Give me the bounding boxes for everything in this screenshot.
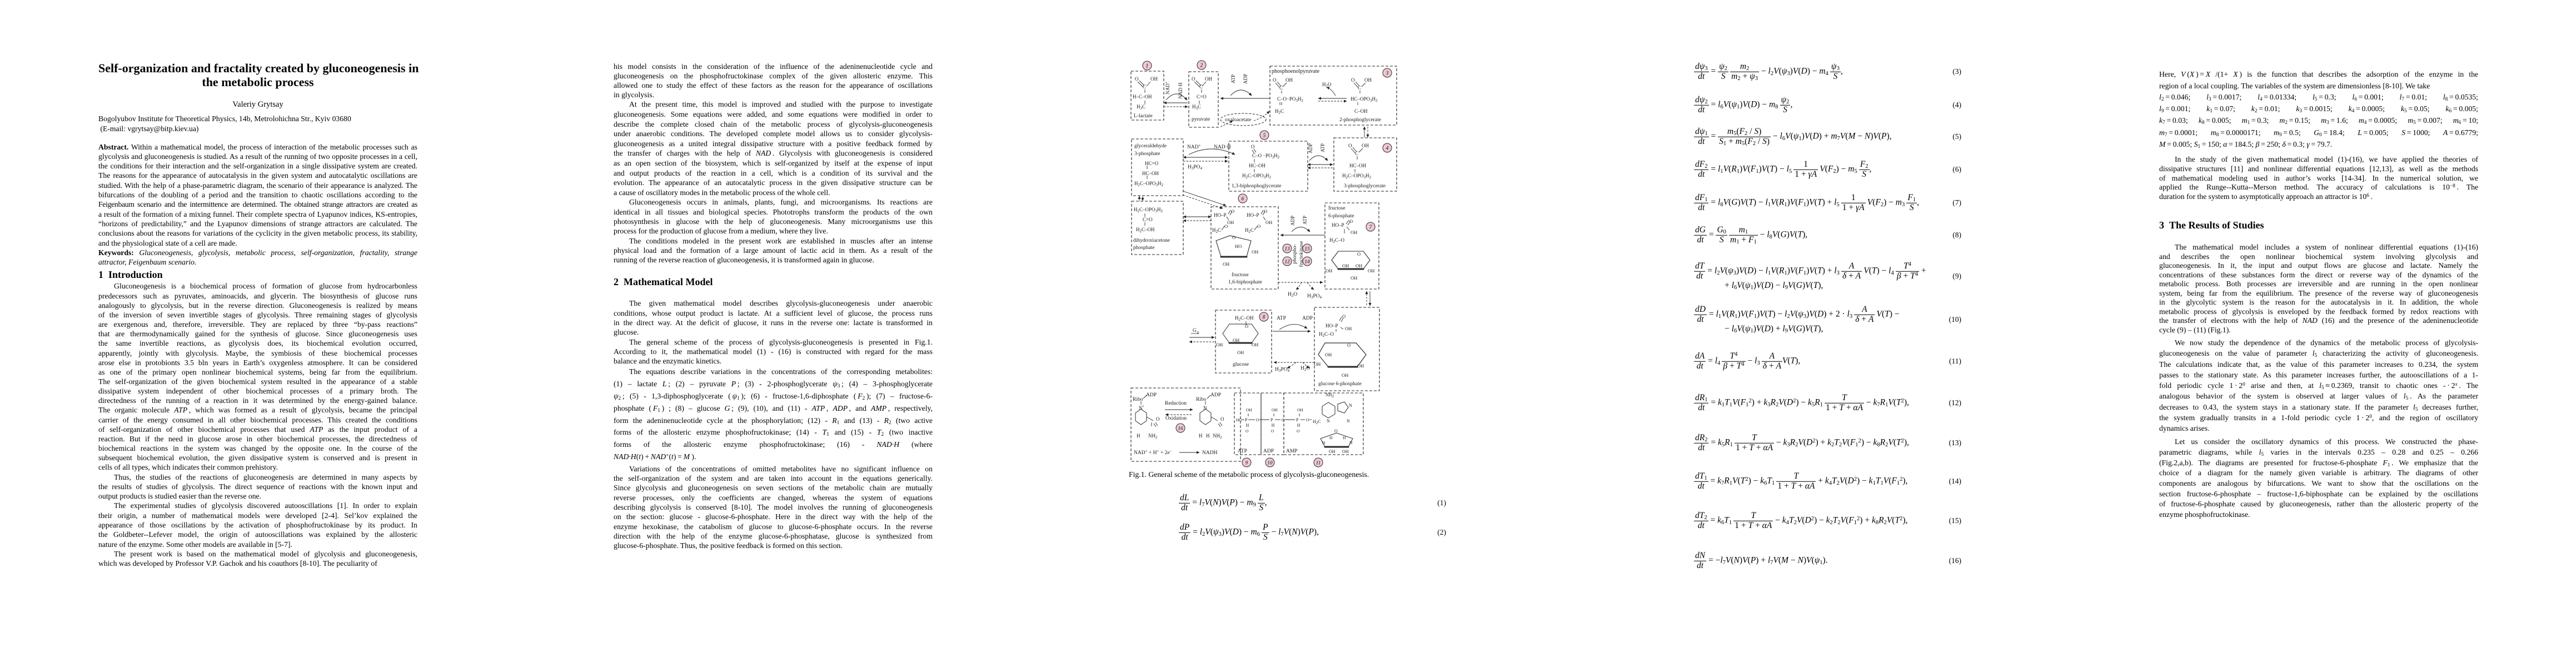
svg-text:O: O [1245, 323, 1248, 329]
svg-text:OH: OH [1351, 230, 1357, 235]
svg-text:O: O [1156, 416, 1160, 422]
svg-text:ADP: ADP [1243, 74, 1248, 84]
svg-text:8: 8 [1263, 315, 1265, 321]
svg-text:O: O [1251, 144, 1255, 150]
svg-text:5: 5 [1263, 133, 1266, 139]
svg-text:N: N [1349, 403, 1352, 408]
svg-text:OH: OH [1246, 407, 1252, 412]
svg-text:C=O: C=O [1143, 217, 1153, 222]
svg-text:O: O [1282, 417, 1285, 422]
svg-text:C: C [1355, 151, 1358, 156]
svg-text:13: 13 [1284, 247, 1290, 252]
svg-text:9: 9 [1245, 461, 1248, 466]
svg-text:HC=O: HC=O [1145, 161, 1159, 166]
svg-text:G: G [1193, 328, 1197, 333]
svg-text:H2​C–OH: H2​C–OH [1235, 315, 1254, 322]
svg-text:OH: OH [1205, 76, 1212, 82]
svg-text:oxaloacetate: oxaloacetate [1225, 117, 1251, 123]
svg-text:3-phosphoglycerate: 3-phosphoglycerate [1344, 183, 1386, 189]
svg-text:HO: HO [1236, 417, 1242, 422]
svg-text:4: 4 [1386, 146, 1389, 152]
svg-text:Ribo: Ribo [1133, 397, 1143, 402]
svg-text:OH: OH [1272, 407, 1278, 412]
svg-text:HO–P: HO–P [1247, 212, 1259, 218]
svg-text:O: O [1273, 77, 1277, 83]
svg-text:HO–P: HO–P [1214, 212, 1227, 218]
svg-text:OH: OH [1252, 249, 1258, 255]
svg-text:NH2​: NH2​ [1326, 392, 1334, 399]
svg-text:NAD+​: NAD+​ [1164, 81, 1171, 94]
svg-text:OH: OH [1233, 337, 1239, 343]
svg-text:OH: OH [1342, 449, 1349, 454]
svg-text:H: H [1329, 435, 1333, 440]
svg-text:C: C [1143, 84, 1146, 89]
svg-text:fructose: fructose [1328, 205, 1346, 211]
svg-text:NAD+​ + H+​ + 2e–​: NAD+​ + H+​ + 2e–​ [1134, 449, 1172, 456]
svg-text:15: 15 [1304, 247, 1310, 252]
svg-text:NAD+​: NAD+​ [1187, 143, 1201, 151]
svg-text:OH: OH [1252, 342, 1258, 347]
svg-text:N: N [1327, 419, 1330, 424]
svg-text:OH: OH [1356, 263, 1362, 268]
svg-text:NAD·H: NAD·H [1178, 82, 1183, 98]
svg-text:AMP: AMP [1286, 449, 1298, 454]
svg-text:HO–P: HO–P [1332, 222, 1344, 228]
svg-text:C: C [1279, 85, 1283, 91]
svg-text:H2​C–OPO3​H2​: H2​C–OPO3​H2​ [1134, 181, 1164, 187]
svg-text:O: O [1342, 313, 1346, 319]
svg-text:Ribo: Ribo [1196, 397, 1207, 402]
svg-text:OH: OH [1345, 326, 1352, 331]
svg-text:H2​C: H2​C [1275, 108, 1284, 115]
svg-text:ATP: ATP [1302, 216, 1308, 225]
svg-text:H2​C–OPO3​H2​: H2​C–OPO3​H2​ [1342, 173, 1372, 180]
svg-text:OH: OH [1357, 363, 1364, 369]
svg-text:NADH: NADH [1202, 450, 1218, 456]
svg-text:NH2​: NH2​ [1148, 433, 1158, 440]
svg-text:H–C–OH: H–C–OH [1133, 94, 1152, 99]
svg-text:P: P [1270, 417, 1273, 422]
svg-text:OH: OH [1362, 143, 1369, 148]
svg-text:OH: OH [1368, 268, 1374, 273]
svg-text:glyceraldehyde: glyceraldehyde [1134, 143, 1167, 149]
svg-text:N: N [1347, 419, 1350, 424]
svg-text:OH: OH [1364, 77, 1372, 83]
svg-text:ATP: ATP [1230, 74, 1236, 83]
svg-text:O: O [1256, 417, 1259, 422]
svg-text:C–O ~PO3​H2​: C–O ~PO3​H2​ [1252, 153, 1280, 160]
svg-text:OH: OH [1351, 275, 1357, 281]
svg-text:H: H [1343, 435, 1346, 440]
svg-text:ATP: ATP [1320, 143, 1326, 152]
svg-text:ADP: ADP [1263, 449, 1274, 454]
svg-text:ADP: ADP [1308, 143, 1313, 153]
svg-text:H3​PO4​: H3​PO4​ [1307, 293, 1322, 300]
svg-text:ATP: ATP [1277, 316, 1286, 321]
svg-text:phosphoenolpyruvate: phosphoenolpyruvate [1272, 68, 1320, 74]
svg-text:OH: OH [1216, 342, 1223, 347]
svg-text:HO–P: HO–P [1326, 323, 1338, 328]
svg-text:HC–OH: HC–OH [1142, 171, 1159, 176]
svg-text:C=O: C=O [1197, 94, 1207, 99]
svg-text:O: O [1257, 223, 1260, 229]
svg-text:2-phosphoglycerate: 2-phosphoglycerate [1339, 117, 1381, 123]
svg-text:1,3-biphosphoglycerate: 1,3-biphosphoglycerate [1232, 183, 1281, 189]
svg-text:H2​C–O: H2​C–O [1329, 237, 1345, 244]
svg-text:OH: OH [1326, 268, 1332, 273]
svg-text:HC–OPO3​H2​: HC–OPO3​H2​ [1351, 96, 1378, 103]
svg-text:O: O [1271, 429, 1274, 434]
svg-text:P: P [1245, 417, 1248, 422]
svg-text:O: O [1135, 76, 1139, 82]
svg-text:HC–OH: HC–OH [1349, 163, 1367, 168]
svg-text:OH: OH [1285, 77, 1293, 83]
svg-text:O: O [1232, 235, 1235, 240]
svg-text:+: + [1142, 404, 1144, 409]
svg-text:H: H [1206, 433, 1210, 439]
svg-text:H2​C–O: H2​C–O [1319, 331, 1334, 338]
svg-text:fructose: fructose [1232, 272, 1249, 278]
svg-text:10: 10 [1267, 461, 1273, 466]
svg-text:O: O [1192, 76, 1195, 82]
svg-text:O: O [1224, 223, 1228, 229]
svg-text:H2​O: H2​O [1288, 292, 1297, 298]
svg-text:H2​C–OPO3​H2​: H2​C–OPO3​H2​ [1134, 207, 1163, 213]
svg-text:OH: OH [1314, 361, 1321, 367]
svg-text:dihydroxiacetone: dihydroxiacetone [1133, 238, 1170, 243]
svg-text:C: C [1358, 85, 1361, 91]
svg-text:14: 14 [1304, 260, 1310, 265]
svg-text:OH: OH [1342, 263, 1349, 268]
svg-text:6: 6 [1242, 196, 1244, 202]
svg-text:ATP: ATP [1238, 449, 1247, 454]
svg-text:O: O [1357, 251, 1361, 257]
svg-text:P: P [1296, 417, 1299, 422]
svg-text:OH: OH [1223, 261, 1229, 267]
svg-text:O: O [1348, 143, 1352, 148]
svg-text:3-phosphate: 3-phosphate [1134, 151, 1160, 157]
svg-text:H2​C–OPO3​H2​: H2​C–OPO3​H2​ [1242, 173, 1272, 180]
svg-text:OH: OH [1329, 449, 1336, 454]
svg-text:O: O [1306, 417, 1309, 422]
svg-text:OH: OH [1237, 350, 1244, 355]
svg-text:H2​C–OH: H2​C–OH [1136, 227, 1155, 233]
svg-text:glucose 6-phosphate: glucose 6-phosphate [1318, 381, 1362, 387]
svg-text:OH: OH [1150, 76, 1158, 82]
svg-text:ADP: ADP [1290, 216, 1296, 226]
svg-text:1: 1 [1146, 63, 1149, 69]
svg-text:O: O [1351, 77, 1355, 83]
svg-text:H2​C: H2​C [1212, 227, 1221, 234]
svg-text:C–O~PO3​H2​: C–O~PO3​H2​ [1277, 96, 1303, 103]
svg-text:OH: OH [1342, 372, 1348, 378]
svg-text:phospho-: phospho- [1292, 244, 1298, 263]
svg-text:H: H [1137, 433, 1140, 439]
svg-text:NH2​: NH2​ [1213, 433, 1222, 440]
svg-text:O: O [1347, 342, 1351, 348]
svg-text:glucose: glucose [1233, 362, 1249, 367]
svg-text:O: O [1220, 416, 1224, 422]
svg-text:OH: OH [1325, 352, 1332, 357]
svg-text:11: 11 [1316, 461, 1321, 466]
svg-text:O: O [1334, 429, 1338, 434]
svg-text:2: 2 [1200, 63, 1203, 69]
svg-text:O: O [1297, 429, 1300, 434]
svg-text:H2​C: H2​C [1245, 227, 1254, 234]
svg-text:O: O [1231, 208, 1234, 214]
svg-text:Reduction: Reduction [1165, 401, 1187, 406]
svg-text:H: H [1349, 440, 1353, 445]
svg-text:O: O [1245, 429, 1249, 434]
svg-text:O: O [1264, 208, 1267, 214]
svg-text:OH: OH [1227, 220, 1234, 225]
svg-text:C: C [1199, 84, 1203, 89]
svg-text:H2​O: H2​O [1301, 366, 1310, 372]
svg-text:3: 3 [1386, 71, 1389, 77]
svg-text:O: O [1349, 218, 1353, 224]
svg-text:H3​PO4​: H3​PO4​ [1188, 165, 1203, 171]
svg-text:HO: HO [1235, 243, 1242, 249]
svg-text:ADP: ADP [1302, 316, 1313, 321]
svg-text:Oxidation: Oxidation [1165, 416, 1187, 421]
svg-text:C–OH: C–OH [1354, 108, 1368, 114]
svg-text:H: H [1199, 433, 1203, 439]
svg-text:OH: OH [1265, 220, 1272, 225]
svg-text:12: 12 [1284, 260, 1290, 265]
svg-text:phosphate: phosphate [1133, 245, 1155, 251]
svg-text:HC–OH: HC–OH [1249, 163, 1266, 168]
svg-text:ADP: ADP [1146, 392, 1157, 398]
svg-text:H2​C: H2​C [1313, 419, 1321, 425]
svg-text:16: 16 [1178, 426, 1183, 432]
svg-text:1,6-biphosphate: 1,6-biphosphate [1228, 280, 1262, 285]
svg-text:OH: OH [1297, 407, 1303, 412]
svg-text:H3​C: H3​C [1137, 104, 1145, 111]
svg-text:0: 0 [1197, 331, 1199, 335]
svg-text:pyruvate: pyruvate [1192, 117, 1210, 122]
svg-text:ADP: ADP [1210, 392, 1221, 398]
svg-text:L-lactate: L-lactate [1134, 113, 1153, 119]
svg-text:H3​C: H3​C [1192, 104, 1201, 111]
svg-text:H: H [1322, 440, 1326, 445]
